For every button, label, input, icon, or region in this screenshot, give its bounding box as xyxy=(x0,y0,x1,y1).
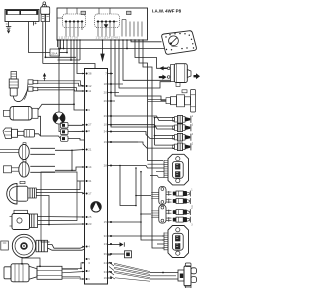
wire: relay feed to injector bus xyxy=(111,40,155,127)
wire: A/C clutch feed xyxy=(58,40,60,112)
wire: ECU pin 28 to coil 1 xyxy=(108,166,151,169)
inline sensor 1 (fuel vapour separator) xyxy=(0,143,55,160)
relay box bottom pin junction dots xyxy=(57,39,144,41)
purge valve (canister) xyxy=(4,107,39,121)
wire: relay to ECU pin 9 xyxy=(74,40,85,110)
wire: ignition switch left contact down to bus xyxy=(42,22,44,64)
svg-text:I.A.W. 4WF P8: I.A.W. 4WF P8 xyxy=(152,9,182,14)
svg-text:11: 11 xyxy=(88,89,91,93)
coolant temp sensor xyxy=(3,128,35,139)
wire: TPS ground shared xyxy=(36,196,49,225)
ignition switch xyxy=(41,2,50,22)
distributor / phase sensor xyxy=(1,234,48,257)
svg-text:30: 30 xyxy=(104,234,108,238)
wire: ECU pin 34 to injector 3 xyxy=(108,132,175,139)
wire: lambda signal pair to ECU pin 12 xyxy=(38,81,85,86)
wire: ECU pin 10 to injector 2 xyxy=(108,125,175,129)
svg-text:15: 15 xyxy=(104,220,108,224)
Marelli logo inside ECU xyxy=(91,202,101,212)
lambda sensor xyxy=(9,72,28,102)
wire: crank sensor shield loop xyxy=(22,258,40,266)
svg-text:21: 21 xyxy=(88,147,92,151)
wire: purge valve to stack xyxy=(38,116,41,136)
svg-text:17: 17 xyxy=(88,191,92,195)
wire: stack plug 2 to ECU pin 8 xyxy=(68,130,85,132)
svg-text:20: 20 xyxy=(104,90,108,94)
wire: ECU pin 30 to coil 2 xyxy=(108,235,165,237)
junction dots under relay box xyxy=(45,39,128,61)
harness loop rectangle xyxy=(38,172,77,242)
svg-text:33: 33 xyxy=(104,270,108,274)
spark plug labels xyxy=(191,188,193,226)
wire: ECU pin 19 to injector 4 xyxy=(108,142,175,148)
svg-text:23: 23 xyxy=(88,222,92,226)
svg-text:38: 38 xyxy=(88,71,92,75)
idle actuator xyxy=(10,210,38,229)
throttle position sensor xyxy=(7,181,37,204)
wire: relay to instrument panel upper xyxy=(131,40,162,42)
wire: battery positive feed down to fuse line xyxy=(29,22,51,53)
wire: TPS wiper to ECU pin 17 xyxy=(36,193,84,194)
svg-text:10: 10 xyxy=(104,123,108,127)
ECU pins right side xyxy=(104,71,123,280)
wire: injector common feed bus xyxy=(155,118,175,146)
wire: stack plug 1 to ECU pin 27 xyxy=(68,124,85,127)
coil 2 connector comb xyxy=(164,233,168,251)
wire: ECU pin 29 to injector 1 xyxy=(108,116,175,121)
injector cylinder labels xyxy=(192,115,194,146)
spark plug 3 xyxy=(173,209,191,215)
suppression capacitor (black box) xyxy=(108,251,132,258)
wire: relay pin drop d xyxy=(70,40,72,60)
wire: relay to fuel pump terminal b xyxy=(119,40,171,88)
tiny arrowheads at incoming wires xyxy=(82,73,84,280)
svg-text:36: 36 xyxy=(104,252,108,256)
wire: harness vertical to spark plug groups xyxy=(136,168,164,240)
wire: ECU pin 13 stub xyxy=(108,244,120,246)
wire: bus under relay box y63.5 to ECU top xyxy=(43,64,95,69)
wire: cable pairs to rpm sensor xyxy=(114,263,150,281)
svg-text:26: 26 xyxy=(104,99,108,103)
svg-text:16: 16 xyxy=(104,276,108,280)
black arrow right of pump pointing right xyxy=(194,73,201,79)
injector 2 xyxy=(173,124,191,132)
rpm/speed sensor (bottom right) xyxy=(150,263,197,288)
wire: relay drop to panel bus xyxy=(126,40,128,49)
ignition coil pack 2 xyxy=(168,226,189,258)
wire: ECU bottom pin stubs xyxy=(108,263,112,278)
wire: temp sensor to connector stack xyxy=(35,134,61,139)
wire: ECU pin 19 stub xyxy=(108,141,139,143)
black arrow pointing right (fuel inlet) xyxy=(159,75,167,80)
wire: relay to fuel filter unit xyxy=(115,40,166,101)
wire: crank sensor pair B to ECU pin 6 xyxy=(62,277,85,279)
termination arrow at ECU pin 244 xyxy=(120,242,125,246)
wire: cables to spark plug groups xyxy=(136,196,151,215)
svg-text:12: 12 xyxy=(88,84,92,88)
spark plug 4 xyxy=(173,217,191,223)
injector 4 xyxy=(173,143,191,151)
fuel pump assembly xyxy=(167,64,191,87)
wire: inline sensor 2 to ECU pin 14 xyxy=(55,167,85,170)
svg-text:29: 29 xyxy=(104,114,108,118)
wire: relay to ignition coil 2 xyxy=(143,40,164,248)
crankshaft rpm sensor xyxy=(4,264,62,282)
injector 1 xyxy=(173,116,191,124)
fuse symbol in box near K2 xyxy=(127,11,132,14)
wire: inline sensor 1 to ECU pin 21 xyxy=(55,149,85,152)
injector 3 xyxy=(173,133,191,141)
ECU pins left side xyxy=(82,71,92,281)
svg-text:27: 27 xyxy=(88,123,92,127)
wire: phase sensor return xyxy=(48,248,85,250)
relay K2 (fuel pump relay) xyxy=(95,8,143,37)
battery B1 xyxy=(5,10,39,26)
wire: fan to connector stack xyxy=(59,124,61,132)
ignition coil pack 1 xyxy=(168,154,189,185)
wire: relay drop to ECU arrow xyxy=(102,40,104,54)
wire: relay pin drop to fuse line xyxy=(66,40,68,53)
wire: crank sensor mid to ECU pin 2 xyxy=(62,272,85,273)
instrument panel cluster xyxy=(162,31,197,55)
wire: ignition switch right contact down xyxy=(44,22,46,58)
wire: purge valve feed xyxy=(38,104,74,110)
wire: link sensor1 to sensor2 xyxy=(71,150,73,170)
svg-text:19: 19 xyxy=(104,140,108,144)
inline sensor 2 xyxy=(4,160,56,177)
wire: coil harness branch xyxy=(120,166,136,206)
ground symbol (battery negative) xyxy=(6,25,11,33)
relay K1 (injection relay) xyxy=(57,8,86,37)
wire: relay pin drop a xyxy=(57,40,59,47)
lambda connector pair xyxy=(28,80,38,91)
junction: shared ground node xyxy=(48,224,50,226)
wire: idle actuator to ECU pin 23 xyxy=(38,223,85,226)
arrow pointing down to ECU xyxy=(101,54,104,61)
up-arrow marker above lambda wires xyxy=(43,73,46,81)
svg-text:24: 24 xyxy=(104,261,108,265)
wire: relay to fuel pump positive xyxy=(135,40,167,68)
svg-text:34: 34 xyxy=(104,129,108,133)
wire: relay pin drop e xyxy=(79,40,81,60)
wire: bus to instrument panel xyxy=(61,48,165,50)
wire: harness into coil 1 connector xyxy=(148,164,165,177)
fuse F1 20A xyxy=(50,49,60,56)
fuse symbol in box near K1 xyxy=(81,11,86,14)
svg-text:1 10 3 12 14 13 4 8 2: 1 10 3 12 14 13 4 8 2 xyxy=(96,36,121,40)
svg-text:1 11 10 2 3 7 5 6: 1 11 10 2 3 7 5 6 xyxy=(59,36,79,40)
svg-text:28: 28 xyxy=(104,163,108,167)
wire: stack plug 3 to ECU xyxy=(68,139,85,141)
spark plug 1 xyxy=(173,191,191,197)
wire: relay to fuel pump terminal a xyxy=(123,40,171,80)
black arrow pointing left (fuel outlet) xyxy=(159,66,167,70)
wire: relay pin drop c xyxy=(63,40,65,49)
spark plug group 2 distribution bar xyxy=(151,205,171,223)
wire: bus under relay box y57.3 xyxy=(45,56,76,58)
wires into coil 2 xyxy=(157,236,164,248)
svg-text:20 A: 20 A xyxy=(51,52,58,56)
wire: idle actuator to ECU pin 25 xyxy=(38,216,85,219)
wire: shielded bundle hatch xyxy=(109,262,115,279)
svg-text:31: 31 xyxy=(88,179,92,183)
spark plug 2 xyxy=(173,198,191,204)
wire: relay pin drop b xyxy=(60,40,62,49)
fuel filter / pressure regulator xyxy=(148,90,196,113)
ECU box (I.A.W. control unit) xyxy=(85,69,108,285)
wire: fuse output to relay box pin xyxy=(60,52,68,54)
svg-text:13: 13 xyxy=(104,242,108,246)
relay/fuse box outline xyxy=(57,8,148,40)
svg-text:18: 18 xyxy=(104,82,108,86)
svg-text:25: 25 xyxy=(88,215,92,219)
coil 1 connector comb xyxy=(164,160,168,178)
wire: lambda ground pair to ECU pin 11 xyxy=(38,88,85,91)
connector stack (3 plugs) xyxy=(61,123,69,142)
wire: loop to ECU pin xyxy=(77,180,85,182)
wire: TPS track to ECU pin 31 xyxy=(36,182,80,190)
wire: relay to ignition coil 1 xyxy=(139,40,163,161)
A/C compressor clutch symbol (black fan) xyxy=(53,112,65,124)
svg-text:14: 14 xyxy=(88,165,92,169)
spark plug group 1 distribution bar xyxy=(151,187,171,205)
wire: ECU pin 15 to harness xyxy=(108,221,142,223)
wire: phase sensor signal to ECU pin 4 xyxy=(48,245,85,249)
wire: relay to ECU pin 38 xyxy=(77,40,85,74)
wire: bus under relay box y60 xyxy=(58,59,81,61)
wire: crank sensor pair A to ECU xyxy=(62,263,85,269)
